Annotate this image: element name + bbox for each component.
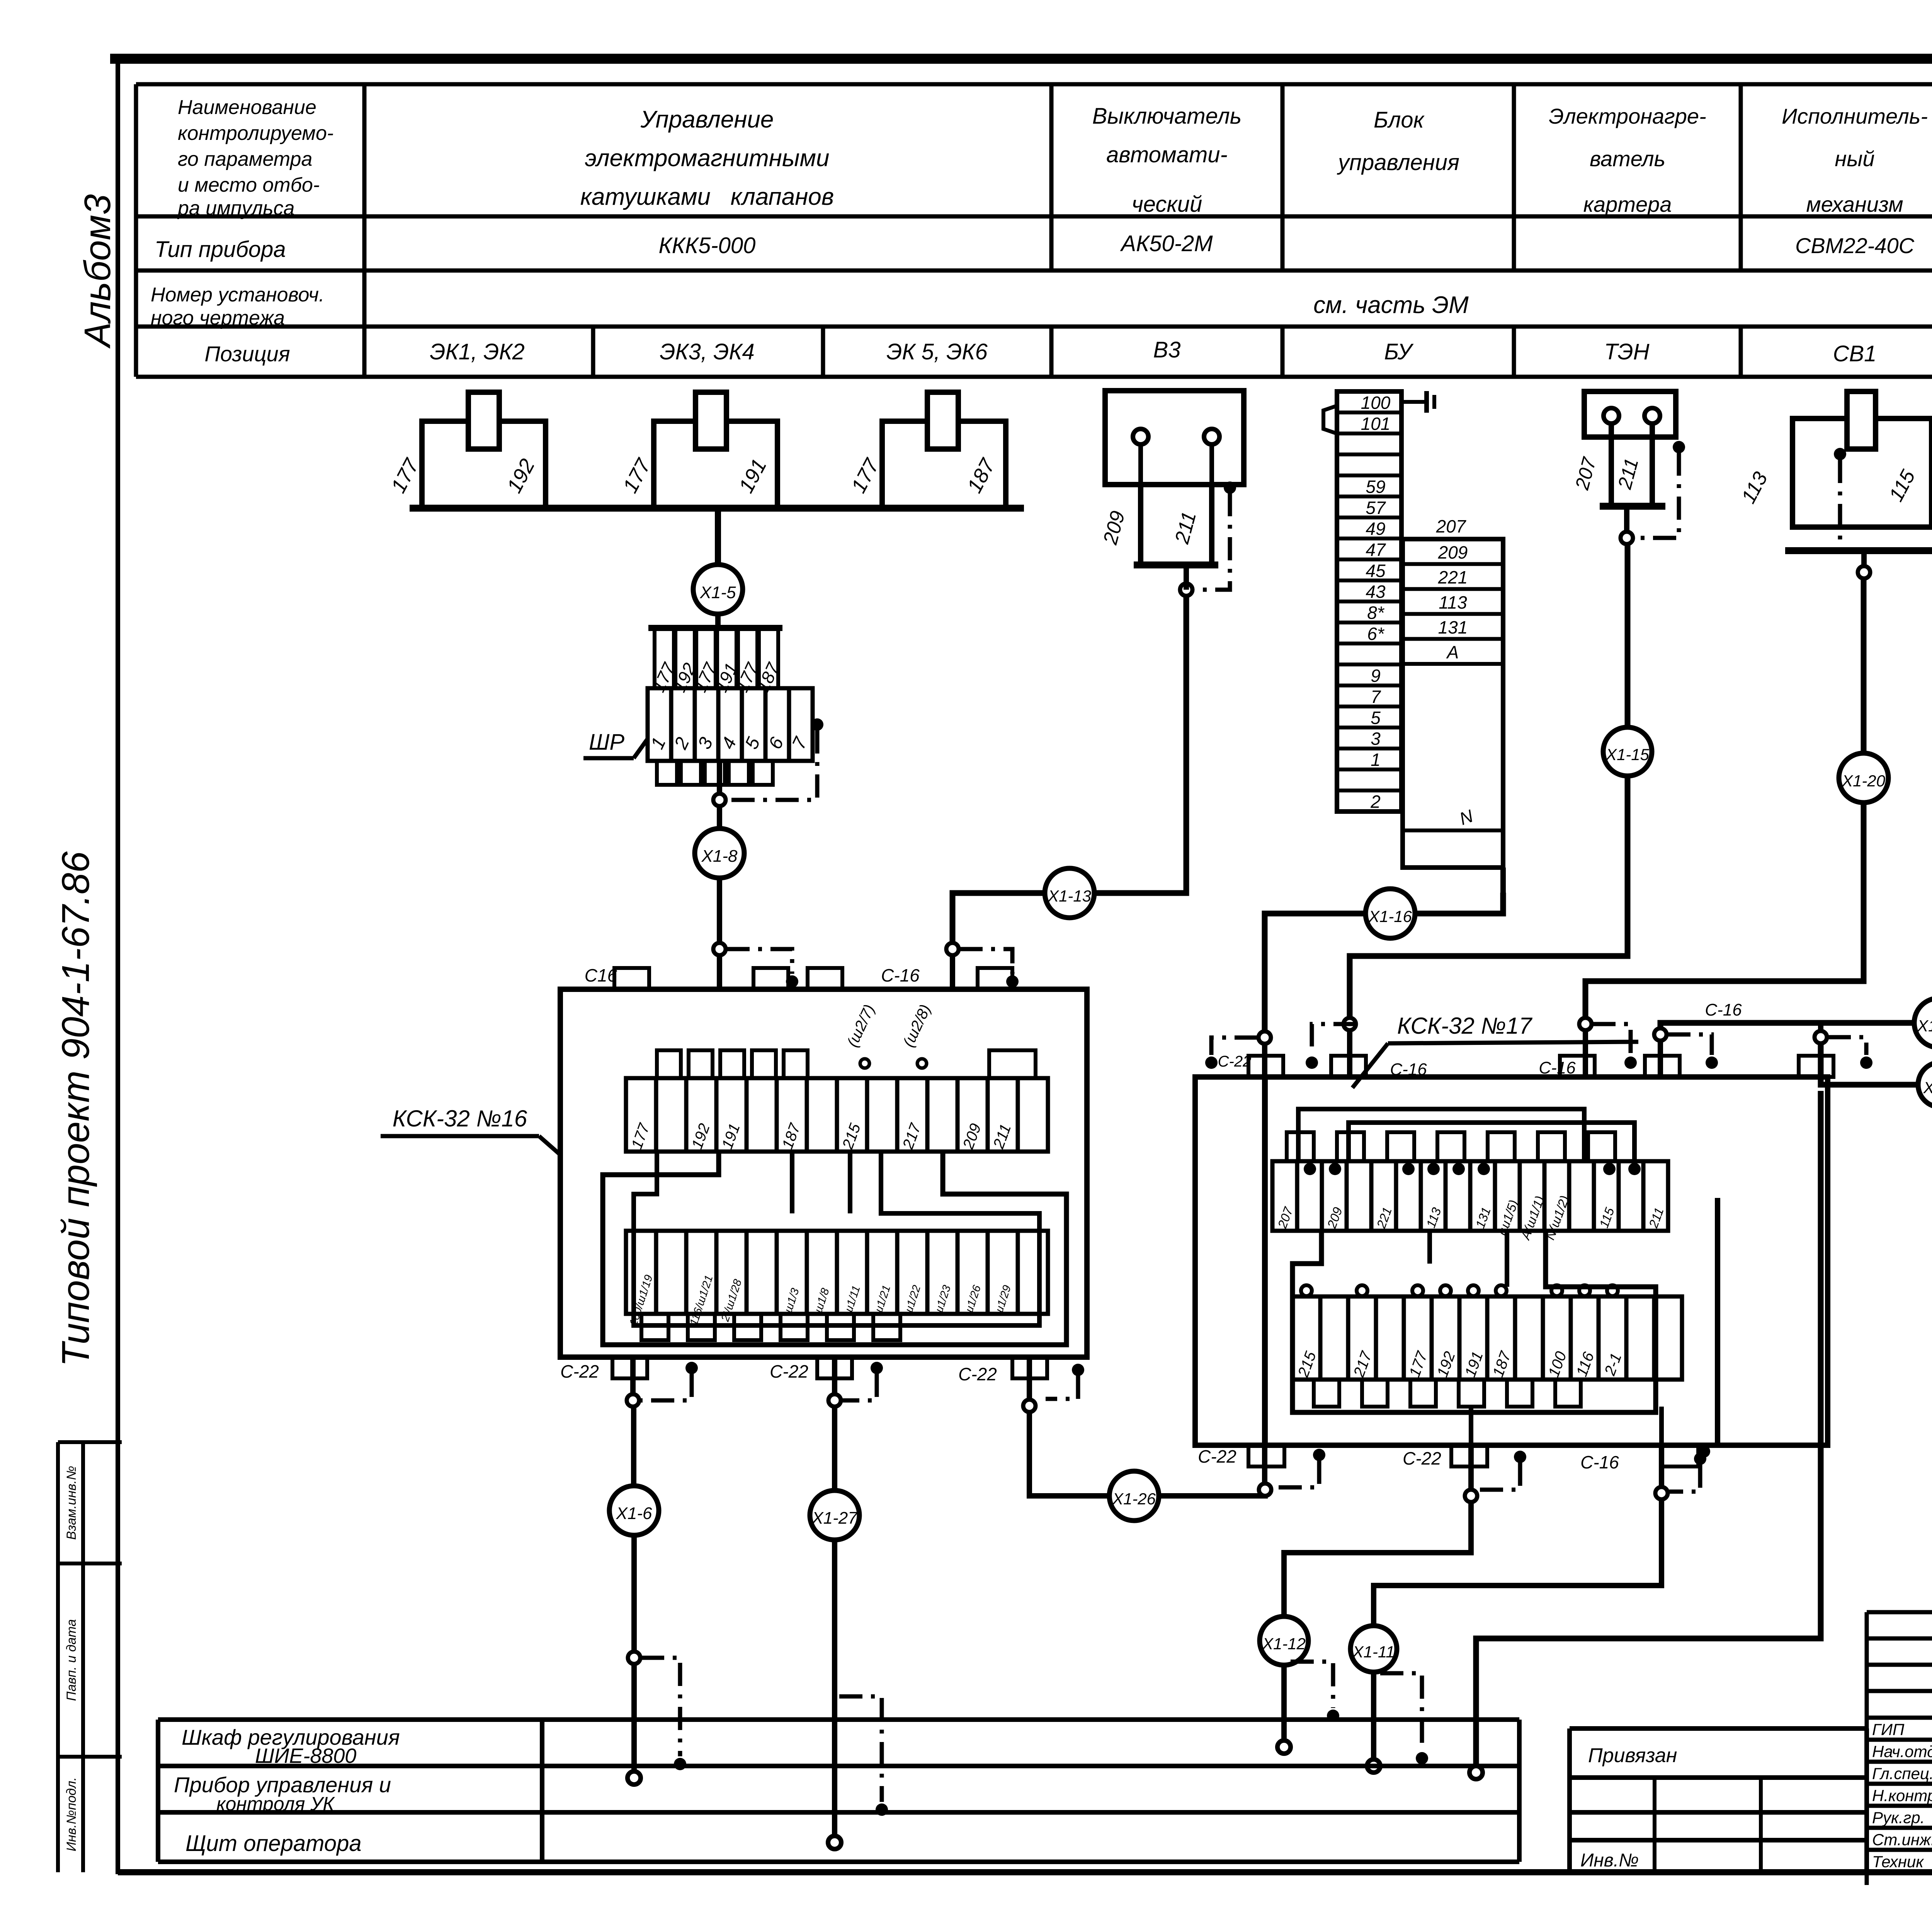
KSK17 lower strip bottom tabs (1314, 1380, 1581, 1407)
dash-dot X1-12 lower (1291, 1662, 1339, 1722)
svg-text:СВ1: СВ1 (1833, 341, 1877, 366)
svg-text:Нач.отд.: Нач.отд. (1872, 1742, 1932, 1761)
svg-text:С-22: С-22 (560, 1361, 599, 1381)
wire KSK17 to X1-26 vertical inside (1262, 1077, 1268, 1445)
svg-text:Наименование: Наименование (178, 96, 316, 119)
svg-text:контроля УК: контроля УК (216, 1793, 335, 1815)
svg-text:Управление: Управление (640, 106, 774, 133)
wire B3 to X1-13 (1094, 565, 1186, 893)
KSK16 lower strip bottom tabs (641, 1314, 900, 1340)
svg-text:Позиция: Позиция (204, 342, 290, 366)
wire X1-26 right up to X1-16 vertical (1159, 1483, 1271, 1496)
ShR dot and dash-dot to junction (713, 718, 823, 806)
svg-text:101: 101 (1361, 413, 1391, 434)
SV1 junction circle (1858, 566, 1870, 578)
KSK17 upper strip top tabs (1287, 1132, 1615, 1161)
svg-text:Х1-27: Х1-27 (811, 1509, 858, 1528)
svg-text:КСК-32 №16: КСК-32 №16 (393, 1106, 527, 1131)
svg-text:3: 3 (1371, 729, 1381, 749)
svg-text:Взам.инв.№: Взам.инв.№ (64, 1466, 79, 1540)
dash-dot X1-15 wire tab (1306, 1024, 1357, 1069)
svg-text:ческий: ческий (1132, 192, 1202, 217)
svg-text:ного чертежа: ного чертежа (151, 307, 285, 329)
svg-text:С-16: С-16 (1539, 1058, 1576, 1077)
svg-text:управления: управления (1337, 150, 1459, 175)
svg-text:см. часть ЭМ: см. часть ЭМ (1313, 292, 1469, 318)
svg-text:Н.контр.: Н.контр. (1872, 1786, 1932, 1805)
KSK16 upper strip top tabs (657, 1050, 1036, 1078)
svg-text:С-16: С-16 (1580, 1452, 1619, 1472)
svg-text:Тип прибора: Тип прибора (155, 237, 286, 262)
svg-text:113: 113 (1439, 592, 1467, 612)
actuator SV1 box (1793, 419, 1932, 527)
ShR top bar (648, 625, 782, 631)
ShR bottom tabs (657, 761, 773, 785)
KSK16 upper strip (626, 1078, 1048, 1152)
SV1 plug (1847, 391, 1876, 449)
KSK17 bottom edge tabs (1198, 1445, 1698, 1472)
row4: Позиция (204, 337, 1932, 368)
SV1 bottom bar (1785, 547, 1932, 554)
svg-text:ра импульса: ра импульса (177, 197, 294, 219)
KSK16 bottom edge tabs (560, 1357, 1047, 1384)
svg-text:Х1-8: Х1-8 (701, 847, 738, 866)
svg-text:ТЭН: ТЭН (1604, 339, 1650, 364)
connector X1-16 (1366, 889, 1415, 938)
svg-text:Х1-2: Х1-2 (1923, 1079, 1932, 1097)
connector X1-27 (810, 1490, 859, 1540)
SV1 labels 113 115 (1737, 466, 1920, 507)
svg-text:Номер установоч.: Номер установоч. (151, 284, 325, 306)
svg-text:Привязан: Привязан (1588, 1744, 1677, 1767)
dash-dot from X1-16 wire to KSK17 tab (1205, 1038, 1258, 1069)
svg-text:45: 45 (1366, 561, 1386, 581)
B3 dash-dot branch (1201, 481, 1236, 590)
wire X1-15 down and left to KSK17 (1344, 776, 1628, 1078)
svg-text:Рук.гр.: Рук.гр. (1872, 1808, 1925, 1827)
svg-text:автомати-: автомати- (1106, 142, 1228, 167)
KSK-32 N16 block outline (560, 989, 1087, 1357)
wire X1-11 down (1367, 1672, 1380, 1773)
control unit strip cells (1337, 391, 1401, 812)
svg-text:Типовой проект 904-1-67.86: Типовой проект 904-1-67.86 (54, 851, 97, 1367)
left margin text Типовой проект 904-1-67.86 (54, 851, 97, 1367)
row3: Номер установочного чертежа (151, 284, 1469, 329)
wire KSK16 to X1-6 (627, 1357, 639, 1486)
svg-text:С-16: С-16 (881, 965, 920, 985)
KSK16 bottom dots and dash-dots (639, 1362, 1084, 1400)
KSK17 top tabs (1218, 1000, 1833, 1079)
svg-text:А: А (1446, 642, 1459, 662)
connector X1-12 (1260, 1616, 1308, 1665)
svg-text:С-22: С-22 (770, 1361, 808, 1381)
wire X1-27 down to operator panel row (828, 1540, 841, 1849)
KSK17 label (1352, 1013, 1638, 1088)
wire X1-16 left down to X1-26 vertical (1259, 914, 1366, 1489)
control unit left hook (1323, 406, 1337, 434)
svg-text:100: 100 (1361, 393, 1391, 413)
svg-text:механизм: механизм (1806, 192, 1903, 216)
svg-text:С-22: С-22 (1218, 1053, 1252, 1070)
coil bus wire (410, 505, 1024, 512)
svg-text:Техник: Техник (1872, 1853, 1924, 1871)
TEN terminals (1604, 408, 1660, 424)
svg-text:Павп. и дата: Павп. и дата (64, 1619, 79, 1701)
svg-text:57: 57 (1366, 498, 1386, 518)
dash-dot X1-20 wire tab (1592, 1024, 1637, 1069)
KSK17 lower strip (1293, 1285, 1682, 1380)
svg-text:Инв.№подл.: Инв.№подл. (64, 1777, 79, 1851)
svg-text:Ст.инж.: Ст.инж. (1872, 1831, 1932, 1849)
wire X1-20 down and left to KSK17 (1579, 803, 1864, 1078)
svg-text:ШР: ШР (589, 730, 624, 755)
signature table names (1872, 1720, 1932, 1871)
svg-text:контролируемо-: контролируемо- (178, 122, 333, 145)
svg-text:Электронагре-: Электронагре- (1549, 104, 1706, 128)
left stamp boxes (58, 1442, 122, 1872)
svg-text:Х1-6: Х1-6 (616, 1504, 652, 1523)
svg-text:Х1-12: Х1-12 (1262, 1635, 1306, 1653)
svg-text:Х1-16: Х1-16 (1368, 907, 1412, 925)
KSK17 inner buses (1293, 1109, 1656, 1412)
binding table (1570, 1728, 1867, 1872)
control unit ground symbol (1401, 391, 1434, 413)
svg-text:электромагнитными: электромагнитными (585, 145, 830, 172)
header table grid (136, 84, 1932, 377)
svg-text:В3: В3 (1153, 337, 1181, 362)
svg-text:ГИП: ГИП (1872, 1720, 1905, 1739)
ShR lower cells 1-7 (647, 688, 813, 761)
svg-text:1: 1 (1371, 750, 1381, 770)
dash-dot at KSK16 right top tab (959, 949, 1019, 988)
svg-text:49: 49 (1366, 519, 1385, 539)
dash-dot X1-6 lower (641, 1658, 686, 1770)
left margin text Альбом 3 (77, 194, 118, 349)
wire X1-8 down to KSK16 (713, 878, 726, 989)
svg-text:Инв.№: Инв.№ (1580, 1850, 1639, 1871)
ShR upper cells (177 192 177 191 177 187) (648, 629, 784, 695)
wire KSK16 to X1-27 (828, 1357, 841, 1491)
svg-text:катушками клапанов: катушками клапанов (580, 184, 834, 210)
TEN wires 207 211 (1571, 424, 1652, 506)
wire X1-18 left to KSK17 (1654, 1023, 1914, 1078)
svg-text:47: 47 (1366, 539, 1386, 560)
solenoid coil EK1/EK2 (177/192) (386, 392, 546, 508)
row2: Тип прибора (155, 237, 286, 262)
header row1 texts (177, 96, 1932, 219)
row2 values (659, 231, 1932, 260)
connector X1-2 (1918, 1062, 1932, 1107)
svg-text:59: 59 (1366, 476, 1385, 497)
wire KSK17 inner right vertical (1698, 1198, 1718, 1458)
solenoid coil EK3/EK4 (177/191) (618, 392, 777, 508)
wire KSK16 to X1-26 (1023, 1357, 1109, 1496)
KSK16 lower strip (626, 1231, 1048, 1327)
heater TEN box (1584, 391, 1676, 437)
wire X1-5 to ShR (715, 614, 721, 628)
svg-text:ЭК3, ЭК4: ЭК3, ЭК4 (660, 339, 755, 364)
dash-dot X1-11 lower (1380, 1673, 1428, 1764)
svg-text:Блок: Блок (1374, 107, 1425, 133)
svg-text:5: 5 (1371, 708, 1381, 728)
svg-text:ный: ный (1835, 146, 1874, 171)
svg-text:Гл.спец.: Гл.спец. (1872, 1764, 1932, 1783)
connector X1-13 (1045, 868, 1094, 918)
solenoid coil EK5/EK6 (177/187) (847, 392, 1006, 508)
svg-text:С-22: С-22 (958, 1364, 997, 1384)
B3 wires 209 211 (1099, 485, 1212, 565)
KSK17 upper strip (1272, 1161, 1668, 1242)
svg-text:и место отбо-: и место отбо- (178, 174, 320, 196)
svg-text:ЭК 5, ЭК6: ЭК 5, ЭК6 (886, 339, 988, 364)
TEN dash-dot branch (1638, 441, 1685, 538)
svg-text:ККК5-000: ККК5-000 (659, 233, 756, 258)
svg-text:Х1-18: Х1-18 (1917, 1017, 1932, 1035)
connector X1-15 (1603, 727, 1652, 776)
wire X1-6 down to cabinet row (628, 1535, 641, 1785)
svg-text:2: 2 (1370, 792, 1381, 812)
cabinet rows texts (174, 1725, 400, 1856)
svg-text:9: 9 (1371, 666, 1381, 686)
svg-text:С16: С16 (585, 965, 617, 985)
connector X1-20 (1839, 753, 1888, 803)
KSK16 inner buses (603, 1152, 1066, 1345)
KSK17 upper strip dots (1304, 1163, 1641, 1175)
svg-text:7: 7 (1371, 687, 1381, 707)
svg-text:Х1-20: Х1-20 (1842, 772, 1886, 790)
connector X1-18 (1914, 998, 1932, 1048)
svg-text:ватель: ватель (1590, 146, 1665, 171)
svg-text:картера: картера (1583, 192, 1672, 216)
svg-text:43: 43 (1366, 582, 1386, 602)
KSK16 label (381, 1106, 561, 1155)
cabinet rows table (158, 1720, 1519, 1862)
KSK16 top tabs and C16 labels (585, 965, 1012, 989)
svg-text:КСК-32 №17: КСК-32 №17 (1397, 1013, 1533, 1039)
control unit cable box (1403, 516, 1503, 868)
connector X1-11 (1350, 1626, 1397, 1672)
dash-dot X1-18 tab (1667, 1034, 1718, 1069)
svg-text:Х1-11: Х1-11 (1352, 1643, 1395, 1661)
svg-text:Исполнитель-: Исполнитель- (1782, 104, 1928, 128)
svg-text:С-16: С-16 (1705, 1000, 1742, 1019)
connector X1-8 (695, 829, 744, 878)
svg-text:АК50-2М: АК50-2М (1120, 231, 1213, 256)
svg-text:С-22: С-22 (1403, 1448, 1441, 1468)
svg-text:С-16: С-16 (1390, 1060, 1427, 1079)
dash-dot X1-2 tab (1828, 1037, 1872, 1069)
TEN junction circle (1621, 532, 1633, 544)
svg-text:Х1-5: Х1-5 (700, 583, 736, 602)
dash-dot X1-27 lower (839, 1696, 888, 1816)
ShR label (583, 730, 648, 758)
B3 bottom bar (1134, 561, 1218, 568)
wire KSK17 bottom to X1-11 (1374, 1407, 1668, 1625)
svg-text:ЭК1, ЭК2: ЭК1, ЭК2 (430, 339, 525, 364)
wire SV1 to X1-20 (1864, 551, 1864, 754)
svg-text:Х1-15: Х1-15 (1605, 745, 1650, 764)
svg-text:Х1-13: Х1-13 (1048, 887, 1091, 905)
svg-text:221: 221 (1438, 567, 1468, 587)
wire KSK17 bottom to X1-12 (1284, 1407, 1477, 1616)
svg-text:131: 131 (1438, 617, 1468, 637)
B3 junction circle (1180, 584, 1192, 596)
B3 terminals (1133, 429, 1219, 485)
wire ShR to X1-8 (717, 761, 722, 829)
SV1 dot and dash-dot (1834, 448, 1846, 549)
svg-text:8*: 8* (1367, 603, 1385, 623)
svg-text:Х1-26: Х1-26 (1112, 1490, 1156, 1508)
KSK16 sh2 labels (844, 1002, 934, 1068)
signature table grid (1867, 1612, 1932, 1885)
connector X1-26 (1109, 1471, 1159, 1521)
wire X1-13 to KSK16 top (946, 893, 1045, 989)
wire bus to X1-5 (715, 508, 721, 565)
svg-text:С-22: С-22 (1198, 1446, 1236, 1466)
wire X1-12 down (1277, 1665, 1291, 1754)
wire cable box to X1-16 (1415, 868, 1503, 914)
svg-text:Альбом3: Альбом3 (77, 194, 118, 349)
switch B3 box (1105, 391, 1244, 485)
svg-text:207: 207 (1436, 516, 1466, 536)
svg-text:СВМ22-40С: СВМ22-40С (1795, 233, 1915, 258)
svg-text:209: 209 (1438, 543, 1468, 563)
connector X1-5 (693, 565, 743, 614)
wire TEN to X1-15 (1627, 506, 1628, 728)
svg-text:Щит оператора: Щит оператора (185, 1831, 362, 1856)
svg-text:БУ: БУ (1384, 339, 1413, 364)
wire X1-2 left down to bottom table (1469, 1020, 1918, 1779)
connector X1-6 (609, 1486, 659, 1535)
KSK17 bottom dots and dash-dots (1271, 1449, 1706, 1492)
svg-text:6*: 6* (1367, 624, 1385, 644)
KSK-32 N17 block outline (1195, 1077, 1828, 1445)
svg-text:ШИЕ-8800: ШИЕ-8800 (255, 1744, 356, 1768)
TEN bottom bar (1600, 503, 1665, 510)
svg-text:Выключатель: Выключатель (1092, 104, 1242, 129)
svg-text:го параметра: го параметра (178, 148, 312, 170)
dash-dot from X1-8 wire junction (726, 949, 798, 988)
